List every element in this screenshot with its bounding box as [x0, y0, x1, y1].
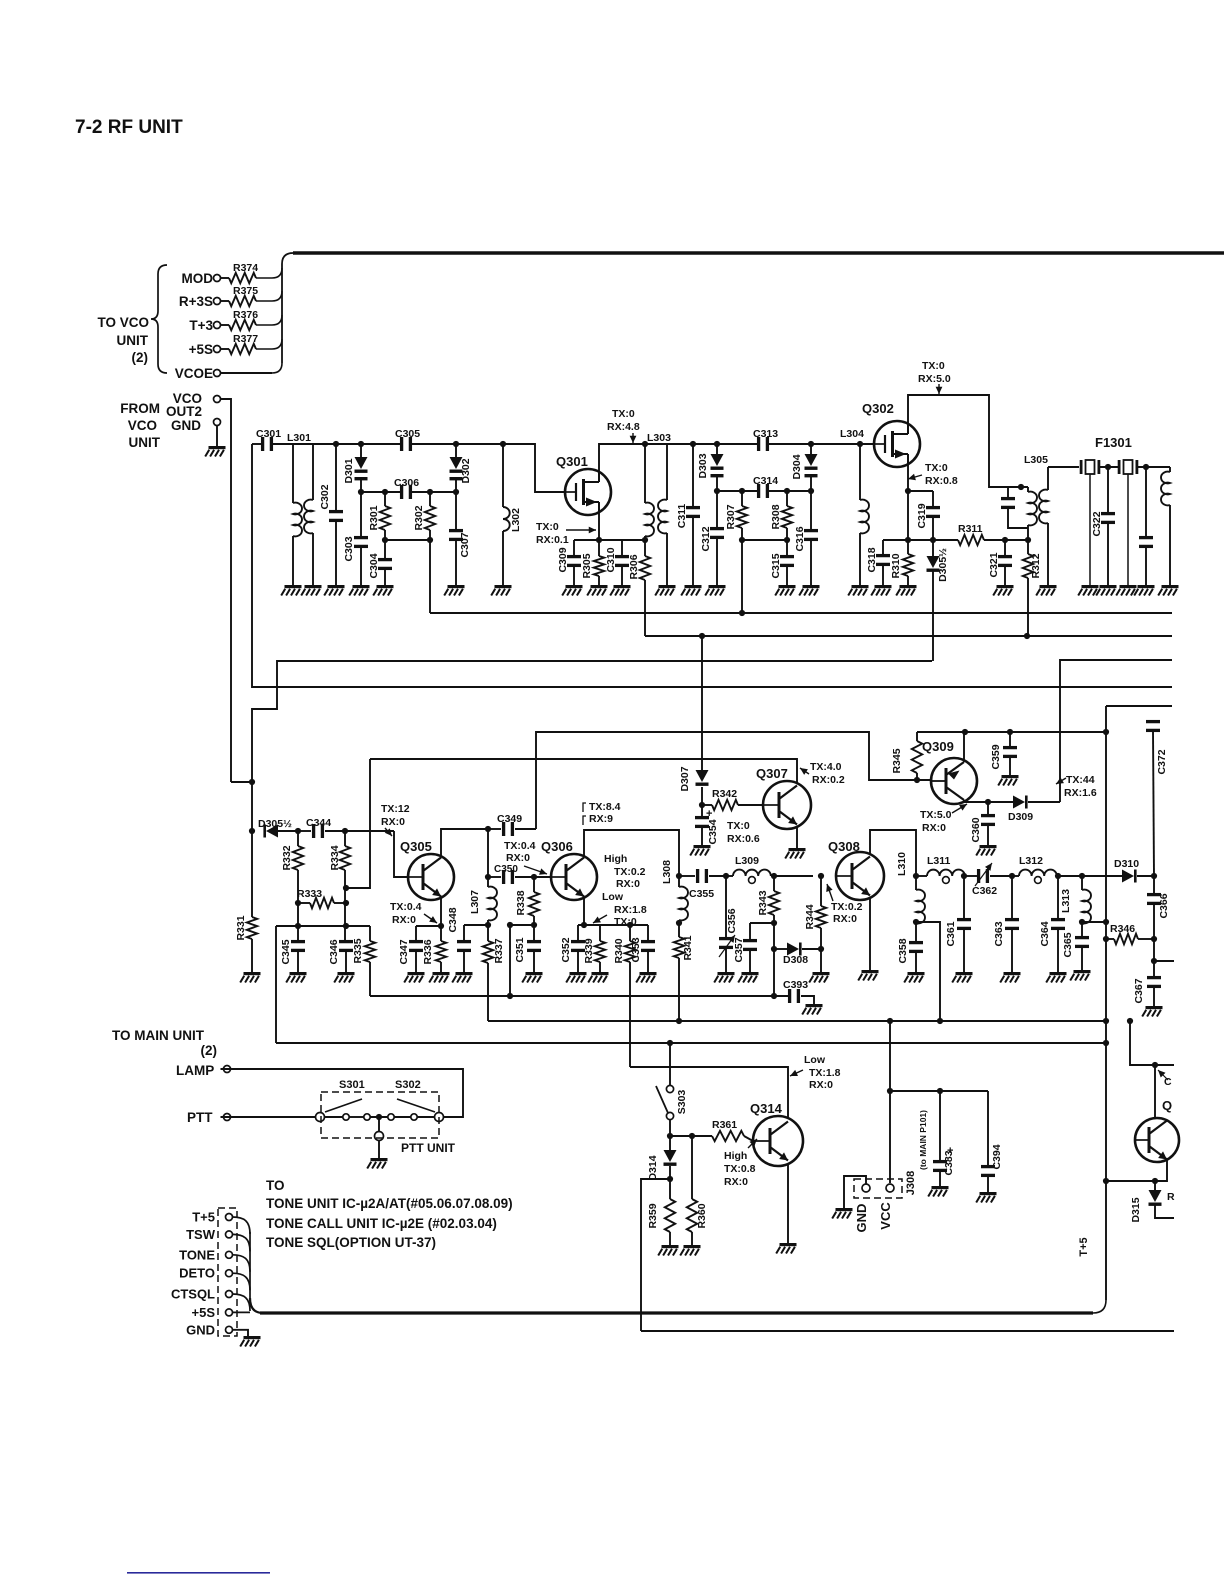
svg-text:D303: D303 — [697, 453, 709, 478]
svg-text:RX:1.8: RX:1.8 — [614, 904, 647, 916]
label TX:44 RX:16 at rx line — [1056, 774, 1097, 799]
node L302 top — [500, 441, 506, 447]
svg-text:T+5: T+5 — [192, 1210, 215, 1225]
svg-text:C359: C359 — [990, 744, 1002, 769]
wire S303 feed — [669, 1043, 671, 1085]
ground C393 — [802, 1004, 822, 1015]
node R312 bus2 — [1024, 633, 1030, 639]
svg-text:R311: R311 — [958, 523, 983, 535]
label T+5 — [1078, 1237, 1090, 1256]
node R308 bottom — [784, 537, 790, 543]
node C356 top — [723, 873, 729, 879]
label L305 — [1024, 454, 1048, 466]
ground Q308 emitter — [858, 970, 878, 981]
label TX:0.2 RX:0 at Q308 base — [826, 884, 862, 925]
node R343 busA — [771, 993, 777, 999]
resistor R342 — [702, 788, 763, 810]
node C350 out — [531, 874, 537, 880]
ground C367 — [1142, 1006, 1162, 1017]
svg-text:C309: C309 — [557, 547, 569, 572]
node L310 bottom — [913, 919, 919, 925]
node R307 bus1 — [739, 610, 745, 616]
capacitor C359 — [990, 732, 1017, 775]
svg-text:C302: C302 — [319, 484, 331, 509]
svg-text:Q314: Q314 — [750, 1101, 783, 1116]
svg-text:RX:1.6: RX:1.6 — [1064, 787, 1097, 799]
wire row 492 to C307 — [430, 491, 456, 493]
inductor L303 winding 2 — [658, 444, 667, 585]
node R345 bottom — [914, 777, 920, 783]
wire C301 left feed — [252, 444, 262, 677]
ground L302 — [491, 585, 511, 596]
ground C307 — [444, 585, 464, 596]
title 7-2 RF UNIT — [75, 117, 183, 138]
svg-text:TX:4.0: TX:4.0 — [810, 761, 842, 773]
label TX:0 RX:0.6 at C354 — [727, 820, 760, 845]
svg-text:J308: J308 — [905, 1171, 917, 1195]
capacitor C383 electrolytic — [933, 1091, 955, 1186]
wire Q308 emitter — [869, 898, 871, 970]
capacitor C353 — [630, 925, 655, 972]
wire x276 to busC — [275, 926, 277, 1043]
inductor L306 — [1161, 467, 1170, 585]
svg-text:RX:0: RX:0 — [724, 1176, 748, 1188]
node R301 bottom — [382, 537, 388, 543]
wire LAMP — [221, 1069, 464, 1117]
crystal filter F1301 element 1 — [1080, 460, 1118, 474]
pin T+5 — [192, 1210, 232, 1225]
wire tone bus vertical — [250, 1232, 263, 1313]
inductor L309 — [726, 855, 774, 883]
capacitor C349 — [488, 813, 536, 836]
svg-text:TX:0: TX:0 — [727, 820, 750, 832]
svg-text:+5S: +5S — [189, 342, 213, 357]
svg-text:RX:0: RX:0 — [506, 852, 530, 864]
pin VCOE — [175, 366, 221, 381]
capacitor C364 — [1039, 876, 1065, 972]
wire source row 540 — [574, 539, 645, 541]
svg-text:RX:0: RX:0 — [833, 913, 857, 925]
ground J308 GND — [832, 1208, 852, 1219]
wire Q307 emitter — [796, 826, 798, 848]
wire C350 to Q306 base — [534, 876, 551, 878]
svg-text:TX:0: TX:0 — [614, 916, 637, 928]
svg-text:C372: C372 — [1156, 749, 1168, 774]
svg-text:R301: R301 — [368, 505, 380, 530]
ground R305 — [587, 585, 607, 596]
svg-text:C366: C366 — [1158, 893, 1170, 918]
ground C357 — [738, 972, 758, 983]
svg-text:Q305: Q305 — [400, 839, 432, 854]
capacitor C346 — [328, 939, 353, 972]
ground R339 — [588, 972, 608, 983]
wire line y=706 — [1106, 705, 1172, 707]
resistor R376 — [221, 309, 283, 330]
svg-text:TX:0.4: TX:0.4 — [390, 901, 422, 913]
node busB T+5 riser — [1103, 1018, 1109, 1024]
ground C352 — [566, 972, 586, 983]
resistor R375 — [221, 285, 283, 306]
svg-text:C365: C365 — [1062, 932, 1074, 957]
node C302 top — [333, 441, 339, 447]
node L307 bottom — [485, 922, 491, 928]
node emitter row right — [1152, 1178, 1158, 1184]
wire x1130 bend — [1130, 1021, 1174, 1065]
svg-text:RX:0: RX:0 — [922, 822, 946, 834]
ground C356 — [714, 972, 734, 983]
resistor R305 — [581, 540, 604, 585]
svg-text:C367: C367 — [1133, 978, 1145, 1003]
node S303 busC — [667, 1040, 673, 1046]
resistor R336 — [422, 926, 446, 972]
diode D307 — [679, 636, 709, 805]
svg-text:D309: D309 — [1008, 811, 1033, 823]
svg-text:C313: C313 — [753, 428, 778, 440]
node C367 top — [1151, 958, 1157, 964]
svg-text:C345: C345 — [280, 939, 292, 964]
resistor R360 — [687, 1136, 708, 1245]
svg-text:C353: C353 — [630, 937, 642, 962]
inductor L304 — [840, 428, 869, 585]
node R360 top — [689, 1133, 695, 1139]
inductor L305 winding 2 — [1039, 467, 1048, 585]
svg-text:RX:0: RX:0 — [381, 816, 405, 828]
wire Q308 collector — [870, 830, 916, 876]
diode D305 half 1 — [927, 540, 950, 661]
wire line y=1331 — [641, 1330, 1174, 1332]
svg-text:(to MAIN P101): (to MAIN P101) — [918, 1110, 928, 1170]
ground L304 — [848, 585, 868, 596]
resistor R374 — [221, 262, 283, 283]
svg-text:C352: C352 — [560, 937, 572, 962]
ground L305 w2 — [1036, 585, 1056, 596]
svg-text:High: High — [724, 1150, 747, 1162]
node VCC rail left — [887, 1088, 893, 1094]
inductor L311 — [916, 855, 965, 883]
wire Q306 emitter row — [578, 924, 648, 926]
wire R338 row to busA drop — [510, 924, 534, 926]
ground C365 — [1070, 970, 1090, 981]
node D302 top — [453, 441, 459, 447]
switch S301 — [316, 1099, 363, 1122]
node C363 top — [1009, 873, 1015, 879]
svg-text:PTT: PTT — [187, 1110, 213, 1125]
svg-text:TO: TO — [266, 1178, 285, 1193]
svg-text:C355: C355 — [689, 888, 714, 900]
label High TX:0.8 RX:0 at Q314 base — [724, 1139, 757, 1188]
resistor R359 — [647, 1199, 675, 1245]
wire L307 to C348 — [464, 924, 488, 926]
transistor Q302 dual-gate FET — [862, 401, 920, 467]
capacitor C394 — [981, 1091, 1003, 1192]
pin GND — [171, 418, 221, 433]
svg-text:RX:0: RX:0 — [392, 914, 416, 926]
capacitor C352 — [560, 925, 585, 972]
node L305 w1 top — [1018, 484, 1024, 490]
svg-text:TONE SQL(OPTION UT-37): TONE SQL(OPTION UT-37) — [266, 1235, 436, 1250]
ground C323 — [1134, 585, 1154, 596]
wire rail y=759 (Q307 collector supply) — [370, 759, 797, 784]
ground C311 — [681, 585, 701, 596]
node D301 top — [358, 441, 364, 447]
capacitor C365 — [1062, 922, 1089, 970]
node C361 top — [961, 873, 967, 879]
capacitor C360 — [970, 802, 995, 845]
svg-text:L309: L309 — [735, 855, 759, 867]
wire R343 down — [773, 923, 775, 996]
pin TSW — [186, 1227, 232, 1242]
svg-text:GND: GND — [854, 1204, 869, 1233]
capacitor C304 — [368, 540, 392, 585]
node D303 bottom — [714, 488, 720, 494]
switch S303 — [656, 1085, 688, 1136]
svg-text:RX:9: RX:9 — [589, 813, 613, 825]
node Q301 source — [596, 537, 602, 543]
wire node row 491 — [717, 490, 811, 492]
svg-text:R332: R332 — [281, 845, 293, 870]
wire base row — [670, 1135, 712, 1137]
wire source down — [907, 491, 909, 540]
node Q305 emitter — [438, 923, 444, 929]
svg-text:L303: L303 — [647, 432, 671, 444]
svg-text:TX:5.0: TX:5.0 — [920, 809, 952, 821]
node L313 bottom — [1079, 919, 1085, 925]
inductor L305 winding 1 — [1028, 487, 1037, 540]
capacitor C344 — [298, 817, 394, 838]
node C311 top — [690, 441, 696, 447]
svg-text:Q301: Q301 — [556, 454, 588, 469]
node D305-2 row — [249, 828, 255, 834]
wire R302 to bus1 — [429, 540, 431, 613]
svg-text:RX:0.1: RX:0.1 — [536, 534, 569, 546]
resistor R311 — [933, 523, 1028, 545]
wire PTT common down — [378, 1117, 380, 1132]
svg-text:D315: D315 — [1130, 1197, 1142, 1222]
svg-text:PTT UNIT: PTT UNIT — [401, 1141, 456, 1155]
brace TO VCO UNIT — [151, 265, 167, 373]
wire rail after C313 — [769, 443, 874, 445]
wire Q314 emitter — [787, 1164, 789, 1243]
ground C360 — [976, 845, 996, 856]
ground C321 — [993, 585, 1013, 596]
node C319 bottom — [930, 537, 936, 543]
ground R359 — [658, 1245, 678, 1256]
node C346 top — [343, 923, 349, 929]
label PTT UNIT — [401, 1141, 456, 1155]
inductor L312 — [1012, 855, 1058, 883]
svg-text:L308: L308 — [661, 860, 673, 884]
pin PTT — [187, 1110, 231, 1125]
wire riser to thick top line — [282, 253, 293, 363]
label TO TONE UNIT — [266, 1178, 513, 1250]
inductor L303 winding 1 — [645, 432, 671, 540]
wire T+5 riser x=1106 — [1093, 706, 1106, 1313]
node D304 bottom — [808, 488, 814, 494]
ground GND pin — [205, 426, 225, 457]
resistor R338 — [515, 877, 539, 925]
svg-text:D305½: D305½ — [937, 548, 949, 582]
wire Q301 source — [598, 513, 600, 540]
wire J308 GND pin — [844, 1176, 866, 1208]
ground C353 — [636, 972, 656, 983]
svg-text:R310: R310 — [890, 553, 902, 578]
svg-text:Q309: Q309 — [922, 739, 954, 754]
svg-text:R339: R339 — [583, 938, 595, 963]
node D308 right — [818, 946, 824, 952]
svg-text:TONE UNIT IC-µ2A/AT(#05.06.07: TONE UNIT IC-µ2A/AT(#05.06.07.08.09) — [266, 1196, 513, 1211]
svg-text:TX:0: TX:0 — [925, 462, 948, 474]
capacitor C357 — [733, 923, 757, 972]
diode D314 — [647, 1136, 677, 1199]
ground R310 — [896, 585, 916, 596]
node L310 top — [913, 873, 919, 879]
svg-text:L311: L311 — [927, 855, 951, 867]
wire thick top line — [293, 251, 1224, 254]
label L301 — [287, 432, 311, 444]
node C322 top — [1105, 464, 1111, 470]
label S302 — [395, 1079, 421, 1091]
label TX:8.4 RX:9 at Q306 collector — [583, 801, 621, 825]
capacitor C354 electrolytic — [695, 805, 719, 845]
ground PTT unit — [367, 1141, 387, 1169]
svg-text:R337: R337 — [493, 938, 505, 963]
svg-text:VCC: VCC — [878, 1202, 893, 1230]
svg-text:L302: L302 — [510, 508, 522, 532]
capacitor C313 — [753, 428, 778, 451]
svg-text:C306: C306 — [394, 477, 419, 489]
wire row to Q308 base — [774, 875, 813, 877]
ground C354 — [690, 845, 710, 856]
capacitor C310 — [605, 540, 629, 585]
svg-text:R302: R302 — [413, 505, 425, 530]
ground crystal2 — [1116, 474, 1136, 596]
wire T+5 curve — [233, 1217, 251, 1234]
wire L310 row 922 — [916, 922, 940, 1021]
svg-text:Low: Low — [602, 891, 624, 903]
label C fragment — [1158, 1070, 1172, 1088]
node D310 out — [1151, 873, 1157, 879]
wire row 540 left — [385, 539, 430, 541]
node L303a top — [642, 441, 648, 447]
pin R+3S — [179, 294, 221, 309]
wire bias row 926 — [276, 925, 370, 927]
label TX:4.0 RX:0.2 at Q307 — [800, 761, 845, 786]
wire Q301 drain to rail — [599, 444, 757, 471]
node R310 top — [905, 537, 911, 543]
ground C359 — [998, 775, 1018, 786]
node x510 busA — [507, 993, 513, 999]
resistor R343 — [757, 876, 779, 923]
svg-text:L301: L301 — [287, 432, 311, 444]
inductor L301 winding 2 — [304, 444, 313, 585]
wire busC y=1043 — [276, 1042, 1106, 1044]
svg-text:R336: R336 — [422, 939, 434, 964]
label TX:0.4 RX:0 at Q305 emitter — [390, 901, 437, 926]
svg-text:+5S: +5S — [192, 1305, 216, 1320]
ground C316 — [799, 585, 819, 596]
label TX:0 RX:4.8 at Q301 drain — [607, 408, 640, 443]
node x1106 y732 — [1103, 729, 1109, 735]
svg-text:D301: D301 — [343, 458, 355, 483]
ground C394 — [976, 1192, 996, 1203]
wire Q314 collector — [630, 1067, 788, 1118]
ground C351 — [522, 972, 542, 983]
svg-text:RX:5.0: RX:5.0 — [918, 373, 951, 385]
ground C303 — [349, 585, 369, 596]
wire Q302 drain — [908, 395, 1028, 487]
node PTT common — [376, 1114, 382, 1120]
ground C383 — [928, 1186, 948, 1197]
capacitor C363 — [993, 876, 1019, 972]
node R334 top — [342, 828, 348, 834]
diode D308 — [774, 943, 821, 967]
wire x231 joins — [231, 781, 252, 783]
node R334 mid — [343, 900, 349, 906]
node R343 top — [771, 873, 777, 879]
capacitor C321 — [988, 540, 1012, 585]
wire bus1 y=613 — [430, 612, 1172, 614]
svg-text:RX:0: RX:0 — [809, 1079, 833, 1091]
node Q315 collector feed — [1152, 1062, 1158, 1068]
node L313 top — [1079, 873, 1085, 879]
svg-text:VCO: VCO — [128, 418, 157, 433]
node bias x346 y888 — [343, 885, 349, 891]
wire thick +5S line — [260, 1311, 1093, 1314]
ground C315 — [775, 585, 795, 596]
svg-text:C393: C393 — [783, 979, 808, 991]
resistor R344 — [804, 876, 826, 949]
svg-text:C360: C360 — [970, 817, 982, 842]
svg-text:C304: C304 — [368, 553, 380, 578]
wire rail x=370 drop — [346, 759, 370, 888]
diode D304 varactor — [791, 444, 818, 491]
node D303 top — [714, 441, 720, 447]
ground R360 — [680, 1245, 700, 1256]
svg-text:C301: C301 — [256, 428, 281, 440]
svg-text:TX:0: TX:0 — [612, 408, 635, 420]
node R332 top — [295, 828, 301, 834]
capacitor C348 — [447, 907, 471, 972]
svg-text:D308: D308 — [783, 954, 808, 966]
svg-text:L312: L312 — [1019, 855, 1043, 867]
node L304 top — [857, 441, 863, 447]
wire row to D310 — [1058, 875, 1122, 877]
wire top rail A2 — [412, 444, 565, 492]
svg-text:RX:0.6: RX:0.6 — [727, 833, 760, 845]
wire Q315 collector — [1154, 1065, 1156, 1117]
wire Q315 emitter — [1155, 1158, 1167, 1181]
pin +5S — [192, 1305, 233, 1320]
svg-text:C358: C358 — [897, 938, 909, 963]
svg-text:TX:1.8: TX:1.8 — [809, 1067, 841, 1079]
svg-text:L305: L305 — [1024, 454, 1048, 466]
svg-text:TX:12: TX:12 — [381, 803, 410, 815]
node D307 riser bus2 — [699, 633, 705, 639]
switch S302 — [397, 1099, 444, 1122]
svg-text:R361: R361 — [712, 1119, 737, 1131]
svg-text:RX:0.8: RX:0.8 — [925, 475, 958, 487]
node x252 y782 — [249, 779, 255, 785]
wire C349 node down — [487, 829, 489, 877]
wire Q306 collector — [584, 830, 679, 876]
svg-text:C351: C351 — [514, 937, 526, 962]
pin DETO — [179, 1266, 232, 1281]
wire rail y=732 right — [917, 731, 1106, 733]
svg-text:T+3: T+3 — [189, 318, 213, 333]
svg-text:D310: D310 — [1114, 858, 1139, 870]
svg-text:TO MAIN UNIT: TO MAIN UNIT — [112, 1028, 205, 1043]
svg-text:GND: GND — [186, 1322, 215, 1337]
